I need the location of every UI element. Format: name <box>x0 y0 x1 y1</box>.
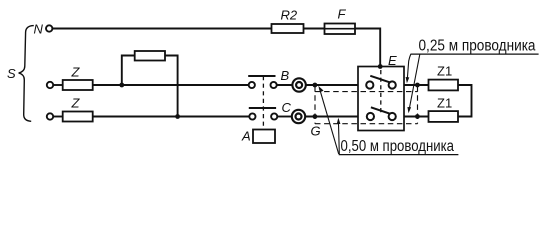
svg-text:R2: R2 <box>281 8 298 23</box>
wire N line <box>53 28 272 30</box>
contact C fixed right <box>271 113 277 119</box>
wire row1 Z to contact B <box>93 84 249 86</box>
leader 0,50 to row1 node <box>318 86 339 154</box>
svg-text:Z: Z <box>71 65 81 80</box>
annotation 0,25 <box>411 38 539 55</box>
actuator linkage dashed <box>262 76 264 130</box>
wire contact C to socket C <box>277 116 292 118</box>
socket C double circle <box>292 110 305 123</box>
svg-text:G: G <box>311 124 321 139</box>
contact B bridge bar <box>248 75 275 77</box>
svg-text:B: B <box>281 68 290 83</box>
resistor R2 <box>272 24 304 33</box>
wire F to E <box>355 29 380 67</box>
wire parallel branch right <box>165 56 178 117</box>
svg-text:Z1: Z1 <box>437 64 452 79</box>
svg-text:F: F <box>338 7 347 22</box>
contact C bridge bar <box>249 107 276 109</box>
svg-text:A: A <box>241 129 251 144</box>
dashed measurement boundary <box>315 86 418 124</box>
terminal row2 <box>47 113 53 119</box>
contact E lower right <box>389 113 396 120</box>
resistor parallel <box>135 51 165 61</box>
svg-text:0,25 м проводника: 0,25 м проводника <box>419 38 536 55</box>
junction dot E top <box>378 64 383 69</box>
contact E upper left <box>366 81 373 88</box>
resistor Z1 upper <box>429 80 459 91</box>
switch block E <box>358 67 404 131</box>
svg-text:S: S <box>7 66 16 81</box>
svg-text:0,50 м проводника: 0,50 м проводника <box>341 138 455 155</box>
svg-text:C: C <box>282 100 292 115</box>
junction node row1 <box>119 83 124 88</box>
wire Z1 loop <box>458 85 472 117</box>
linkage E dashed <box>380 70 382 113</box>
junction node row1 socket output <box>313 83 318 88</box>
junction dot row2 branch <box>175 114 180 119</box>
resistor Z row2 <box>63 112 93 122</box>
socket B double circle <box>292 78 305 91</box>
leader 0,25 to row1 wire <box>406 54 411 83</box>
wire socket B to E <box>306 84 358 86</box>
wire contact B to socket B <box>277 84 293 86</box>
fuse F <box>325 24 356 35</box>
leader 0,25 to row2 wire <box>407 54 419 113</box>
resistor Z row1 <box>63 80 93 90</box>
wire E to Z1 row2 <box>404 116 429 118</box>
annotation 0,50 <box>339 138 459 155</box>
wire row2 terminal to Z <box>53 116 62 118</box>
wire row2 Z to contact C <box>93 116 250 118</box>
pushbutton A <box>253 130 275 144</box>
wire row1 terminal to Z <box>53 84 62 86</box>
contact B fixed right <box>271 82 277 88</box>
blade E lower <box>371 107 390 114</box>
wire E to Z1 row1 <box>404 84 429 86</box>
svg-text:Z1: Z1 <box>437 96 452 111</box>
blade E upper <box>370 76 389 83</box>
resistor Z1 lower <box>429 111 459 122</box>
svg-text:N: N <box>34 22 44 37</box>
terminal N <box>46 25 52 31</box>
terminal row1 <box>47 82 53 88</box>
leader 0,50 to row2 wire <box>337 118 341 154</box>
junction node row2 socket output <box>313 114 318 119</box>
brace S <box>19 26 34 122</box>
wire R2 to F <box>304 28 325 30</box>
wire parallel branch left <box>122 56 135 86</box>
contact B fixed left <box>249 82 255 88</box>
junction dot row2 Z1 side <box>415 114 420 119</box>
junction dot row1 Z1 side <box>415 83 420 88</box>
contact E upper right <box>389 81 396 88</box>
wire socket C to E <box>305 116 358 118</box>
contact C fixed left <box>249 113 255 119</box>
contact E lower left <box>367 113 374 120</box>
svg-text:Z: Z <box>71 96 81 111</box>
